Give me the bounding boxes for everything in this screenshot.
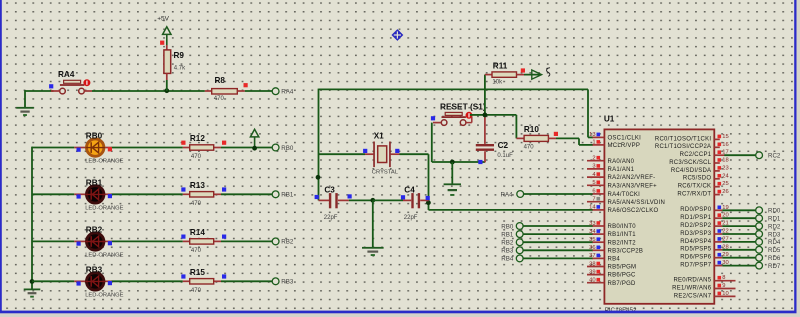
svg-text:3: 3 <box>592 164 595 170</box>
svg-text:24: 24 <box>722 173 729 179</box>
svg-text:RA5/AN4/SS/LVDIN: RA5/AN4/SS/LVDIN <box>608 200 666 206</box>
svg-text:LED-ORANGE: LED-ORANGE <box>85 159 123 165</box>
svg-text:LED-ORANGE: LED-ORANGE <box>85 252 123 258</box>
svg-text:C2: C2 <box>498 141 509 150</box>
svg-text:RB0: RB0 <box>281 145 294 152</box>
svg-text:RD5: RD5 <box>768 247 781 254</box>
svg-text:RB1/INT1: RB1/INT1 <box>608 232 637 238</box>
svg-text:10: 10 <box>722 291 728 297</box>
svg-text:470: 470 <box>214 96 225 102</box>
svg-text:+5V: +5V <box>157 16 169 23</box>
svg-text:RB2: RB2 <box>501 240 514 247</box>
svg-text:R12: R12 <box>190 134 205 143</box>
svg-text:9: 9 <box>722 283 725 289</box>
svg-text:LED-ORANGE: LED-ORANGE <box>85 205 123 211</box>
svg-text:470: 470 <box>191 154 202 160</box>
svg-text:RA6/OSC2/CLKO: RA6/OSC2/CLKO <box>608 208 659 214</box>
svg-text:RD1/PSP1: RD1/PSP1 <box>680 215 711 221</box>
svg-text:RD2: RD2 <box>768 223 781 230</box>
svg-text:RB0: RB0 <box>501 223 514 230</box>
svg-text:25: 25 <box>722 181 728 187</box>
svg-text:RA4: RA4 <box>58 70 75 79</box>
svg-text:RC4/SDI/SDA: RC4/SDI/SDA <box>671 168 711 174</box>
svg-text:13: 13 <box>589 132 595 138</box>
svg-text:1: 1 <box>592 140 595 146</box>
svg-text:RE2/CS/AN7: RE2/CS/AN7 <box>674 293 712 299</box>
svg-text:RD0: RD0 <box>768 208 781 215</box>
svg-text:36: 36 <box>589 245 595 251</box>
svg-text:RC7/RX/DT: RC7/RX/DT <box>677 192 711 198</box>
svg-text:RB2/INT2: RB2/INT2 <box>608 240 637 246</box>
svg-text:RD3: RD3 <box>768 231 781 238</box>
svg-text:RD3/PSP3: RD3/PSP3 <box>680 231 711 237</box>
svg-text:C4: C4 <box>404 186 415 195</box>
svg-text:R11: R11 <box>493 61 508 70</box>
svg-text:RD2/PSP2: RD2/PSP2 <box>680 223 711 229</box>
svg-text:RC0/T1OSO/T1CKI: RC0/T1OSO/T1CKI <box>655 136 712 142</box>
svg-text:RA4/T0CKI: RA4/T0CKI <box>608 192 641 198</box>
svg-text:R14: R14 <box>190 228 205 237</box>
svg-text:37: 37 <box>589 253 595 259</box>
svg-text:470: 470 <box>191 248 202 254</box>
svg-text:8: 8 <box>722 275 725 281</box>
svg-text:RD7/PSP7: RD7/PSP7 <box>680 263 711 269</box>
svg-text:34: 34 <box>589 229 596 235</box>
svg-text:RD0/PSP0: RD0/PSP0 <box>680 207 711 213</box>
svg-text:RC2/CCP1: RC2/CCP1 <box>680 152 712 158</box>
svg-text:40: 40 <box>589 278 595 284</box>
svg-text:22pF: 22pF <box>324 215 338 221</box>
svg-text:6: 6 <box>592 189 595 195</box>
svg-text:23: 23 <box>722 165 728 171</box>
svg-text:RA2/AN2/VREF-: RA2/AN2/VREF- <box>608 175 656 181</box>
svg-text:RA1/AN1: RA1/AN1 <box>608 167 635 173</box>
svg-text:R15: R15 <box>190 268 205 277</box>
svg-text:RB0: RB0 <box>86 132 103 141</box>
svg-text:38: 38 <box>589 261 595 267</box>
svg-text:R8: R8 <box>215 76 226 85</box>
svg-text:RB2: RB2 <box>281 239 294 246</box>
svg-text:C3: C3 <box>324 186 335 195</box>
svg-text:RB7/PGD: RB7/PGD <box>608 281 637 287</box>
svg-text:RB2: RB2 <box>86 226 103 235</box>
svg-text:U1: U1 <box>604 115 615 124</box>
svg-text:RD4: RD4 <box>768 239 781 246</box>
svg-text:33: 33 <box>589 221 595 227</box>
svg-text:RB3: RB3 <box>86 266 103 275</box>
svg-text:RESET (S1): RESET (S1) <box>440 102 486 112</box>
svg-text:RB1: RB1 <box>281 192 294 199</box>
svg-text:470: 470 <box>524 145 535 151</box>
svg-text:LED-ORANGE: LED-ORANGE <box>85 292 123 298</box>
svg-text:RA0/AN0: RA0/AN0 <box>608 159 635 165</box>
svg-text:RE0/RD/AN5: RE0/RD/AN5 <box>673 278 711 284</box>
svg-text:4.7k: 4.7k <box>174 66 186 72</box>
svg-text:RD1: RD1 <box>768 216 781 223</box>
svg-text:22pF: 22pF <box>404 215 418 221</box>
svg-text:RE1/WR/AN6: RE1/WR/AN6 <box>672 285 712 291</box>
svg-text:5: 5 <box>592 180 595 186</box>
svg-text:R13: R13 <box>190 181 205 190</box>
svg-text:RD6: RD6 <box>768 255 781 262</box>
svg-text:RC6/TX/CK: RC6/TX/CK <box>678 184 712 190</box>
svg-text:470: 470 <box>191 288 202 294</box>
svg-text:RB5/PGM: RB5/PGM <box>608 265 637 271</box>
svg-text:RC3/SCK/SCL: RC3/SCK/SCL <box>669 160 712 166</box>
svg-text:RD5/PSP5: RD5/PSP5 <box>680 247 711 253</box>
svg-text:10k: 10k <box>492 80 503 86</box>
svg-text:OSC1/CLKI: OSC1/CLKI <box>608 136 642 142</box>
svg-text:RC1/T1OSI/CCP2A: RC1/T1OSI/CCP2A <box>655 144 711 150</box>
svg-text:RD4/PSP4: RD4/PSP4 <box>680 239 711 245</box>
svg-text:RB0/INT0: RB0/INT0 <box>608 224 637 230</box>
svg-text:RB3: RB3 <box>501 248 514 255</box>
svg-text:RB3/CCP2B: RB3/CCP2B <box>608 248 644 254</box>
svg-text:18: 18 <box>722 158 728 164</box>
svg-text:R9: R9 <box>174 51 185 60</box>
svg-text:RA3/AN3/VREF+: RA3/AN3/VREF+ <box>608 183 658 189</box>
svg-text:RA4: RA4 <box>281 88 294 95</box>
svg-text:39: 39 <box>589 269 595 275</box>
svg-text:35: 35 <box>589 237 595 243</box>
svg-text:RB4: RB4 <box>608 257 621 263</box>
svg-text:X1: X1 <box>374 132 384 141</box>
svg-text:RB3: RB3 <box>281 279 294 286</box>
svg-text:16: 16 <box>722 142 728 148</box>
svg-text:RB1: RB1 <box>501 231 514 238</box>
svg-text:0.1uF: 0.1uF <box>497 153 513 159</box>
svg-text:RB1: RB1 <box>86 179 103 188</box>
svg-text:RB4: RB4 <box>501 256 514 263</box>
svg-text:RB6/PGC: RB6/PGC <box>608 273 637 279</box>
svg-text:RA4: RA4 <box>501 191 514 198</box>
svg-text:RC5/SDO: RC5/SDO <box>683 176 712 182</box>
svg-text:RD6/PSP6: RD6/PSP6 <box>680 255 711 261</box>
svg-text:R10: R10 <box>524 125 539 134</box>
svg-text:7: 7 <box>592 197 595 203</box>
svg-text:15: 15 <box>722 134 728 140</box>
svg-text:14: 14 <box>589 205 596 211</box>
svg-text:CRYSTAL: CRYSTAL <box>372 170 399 176</box>
svg-text:RC2: RC2 <box>768 153 781 160</box>
svg-text:MCLR/VPP: MCLR/VPP <box>608 143 641 149</box>
svg-text:RD7: RD7 <box>768 263 781 270</box>
svg-text:2: 2 <box>592 156 595 162</box>
svg-text:470: 470 <box>191 201 202 207</box>
svg-text:26: 26 <box>722 189 728 195</box>
